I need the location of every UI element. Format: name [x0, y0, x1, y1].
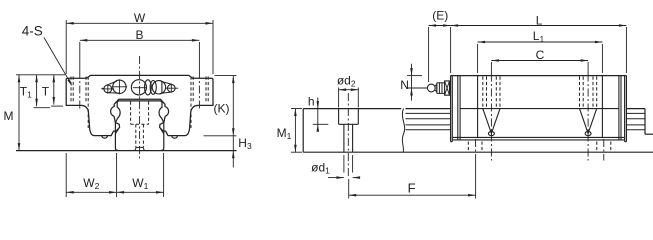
svg-text:L: L: [536, 14, 543, 28]
rail groove line y=129.8: [406, 129, 451, 131]
hole centerline left wing: [79, 71, 81, 111]
dimension N: [407, 75, 422, 77]
hole centerline (section): [347, 93, 349, 176]
dimension H3: [232, 136, 234, 168]
block left end face: [450, 76, 452, 142]
block bottom edge upper: [453, 136, 624, 138]
nipple cone bottom tangent: [160, 92, 172, 94]
block mounting holes hidden (C positions): [482, 77, 484, 109]
dimension T: [53, 75, 55, 105]
svg-text:4-S: 4-S: [22, 24, 43, 39]
dimension M: [16, 74, 65, 76]
grease nipple body circle right: [152, 81, 165, 94]
svg-text:(E): (E): [432, 8, 448, 22]
svg-text:T: T: [42, 84, 50, 98]
oil port circle left: [113, 80, 126, 93]
rail groove line y=118.7: [406, 118, 451, 120]
block top edge: [451, 75, 627, 77]
vertical centerline front view: [139, 56, 141, 161]
nipple neck: [435, 84, 437, 92]
rail bottom relief notch: [135, 147, 144, 150]
teardrop tangent left bottom: [108, 92, 120, 94]
end seal plate left: [451, 76, 453, 142]
rail groove line y=124.9: [406, 124, 451, 126]
seal screw bump left: [102, 136, 108, 139]
rail counterbore hidden right: [148, 102, 150, 125]
H3 arrow up from below: [232, 151, 235, 159]
nipple shoulder edge: [161, 81, 163, 93]
4-S tapped hole right wing (hidden lines): [190, 77, 192, 104]
dimension phi-d1: [343, 155, 345, 173]
rail foot edge to image border: [645, 133, 653, 135]
axis line stub: [102, 87, 105, 89]
dimension phi-d2: [338, 88, 340, 108]
hole centerline V2: [587, 74, 589, 161]
through hole phi-d1 walls: [343, 124, 345, 152]
rail bolt hole cone V under block 1: [483, 109, 500, 134]
grease nipple ribs: [145, 80, 152, 95]
end seal plate right: [624, 76, 626, 142]
dimension W: [65, 20, 67, 74]
nipple cone top tangent: [161, 81, 173, 84]
rail bolt hole hidden right: [142, 124, 144, 147]
4-S tapped hole left wing (hidden lines): [70, 77, 72, 104]
nipple base: [445, 81, 450, 95]
dimension L1: [477, 44, 479, 73]
dimension W1: [163, 153, 165, 197]
grease nipple flange circle: [131, 80, 146, 95]
dimension (E): [428, 27, 430, 82]
svg-text:F: F: [408, 181, 416, 196]
counterbore phi-d2 walls: [338, 109, 340, 125]
end plate line right: [618, 76, 620, 140]
rail top edge (section piece): [303, 108, 401, 110]
block bottom edge lower: [453, 139, 624, 141]
rail counterbore bottom hidden: [131, 123, 149, 125]
rail section left end face: [302, 109, 304, 153]
dimension M1: [291, 108, 302, 110]
hole centerline right wing: [198, 71, 200, 111]
dimension F: [348, 179, 350, 199]
rail top edge under block: [460, 108, 619, 110]
nipple tip ball circle: [168, 84, 176, 92]
block right end face: [625, 76, 627, 142]
rail top edge right of block: [626, 108, 645, 110]
svg-text:C: C: [536, 48, 545, 62]
rail bolt hole cone V under block 2: [580, 109, 597, 134]
rail groove line y=113.4: [406, 112, 451, 114]
end cap joint left: [477, 76, 479, 138]
rail cross-section: [115, 101, 120, 150]
rail top edge: [119, 100, 161, 102]
rail bolt hole hidden left: [135, 124, 137, 147]
end plate line left: [457, 76, 459, 140]
svg-text:N: N: [400, 78, 409, 92]
dimension W2: [65, 153, 67, 197]
hole centerline V1: [490, 74, 492, 161]
dimension h: [313, 123, 329, 125]
rail flank gap line right: [160, 128, 163, 133]
rail end face (stepped cut): [644, 109, 646, 135]
end cap joint right: [601, 76, 603, 138]
mounting surface baseline: [16, 150, 237, 152]
rail flank gap line left: [116, 128, 119, 133]
counterbore bottom: [339, 123, 359, 125]
nipple flange horizontal centerline: [133, 87, 146, 89]
svg-text:(K): (K): [214, 101, 230, 115]
oil hole small circle left: [104, 85, 112, 93]
LM block outline (front view): [66, 75, 213, 135]
hidden rail hole at F position: [467, 142, 469, 152]
svg-text:W: W: [134, 11, 146, 25]
dimension (K): [215, 75, 237, 77]
teardrop tangent left top: [106, 81, 117, 85]
grease nipple (side view): [427, 84, 435, 92]
break line (wavy): [402, 109, 404, 153]
hidden rail hole right: [596, 142, 598, 152]
dimension C: [490, 62, 492, 74]
rail counterbore hidden left: [130, 102, 132, 125]
rail bottom edge (full): [303, 151, 653, 153]
svg-text:M: M: [4, 109, 14, 123]
rail side view right piece: [406, 108, 451, 110]
dimension T1: [36, 75, 38, 107]
svg-text:B: B: [135, 28, 143, 42]
dimension L: [450, 27, 452, 73]
seal screw bump right: [172, 136, 178, 139]
svg-text:h: h: [308, 94, 315, 108]
dimension B: [79, 42, 81, 71]
